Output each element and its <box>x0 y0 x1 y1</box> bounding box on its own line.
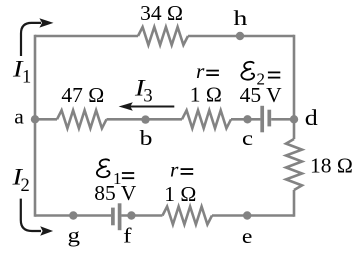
svg-text:g: g <box>68 223 81 247</box>
battery E2 long plate <box>260 106 264 133</box>
wire bottom side <box>35 214 294 217</box>
wire top side <box>35 35 294 38</box>
svg-text:34 Ω: 34 Ω <box>140 1 183 25</box>
battery E1 short plate <box>111 208 115 226</box>
current arrow I2 <box>21 199 41 231</box>
label script E1 <box>97 159 110 177</box>
svg-text:f: f <box>123 224 132 248</box>
svg-text:a: a <box>14 104 24 128</box>
svg-text:r: r <box>196 59 205 83</box>
svg-text:r: r <box>170 158 179 182</box>
svg-text:2: 2 <box>21 176 30 196</box>
node c <box>243 115 251 123</box>
node d <box>290 115 298 123</box>
resistor r internal bottom <box>163 207 213 225</box>
node g <box>69 211 77 219</box>
svg-text:1 Ω: 1 Ω <box>190 82 222 106</box>
svg-text:d: d <box>305 105 318 130</box>
node e <box>243 211 251 219</box>
svg-text:45 V: 45 V <box>240 83 282 107</box>
resistor R 47ohm <box>57 110 107 128</box>
svg-text:1 Ω: 1 Ω <box>164 182 196 206</box>
resistor R 34ohm <box>138 27 188 45</box>
svg-text:47 Ω: 47 Ω <box>61 83 104 107</box>
resistor R 18ohm <box>286 139 302 190</box>
svg-text:85 V: 85 V <box>94 181 136 205</box>
svg-text:e: e <box>242 224 253 248</box>
node h <box>236 32 244 40</box>
battery E1 long plate <box>118 203 122 230</box>
battery E2 short plate <box>267 110 271 127</box>
svg-text:c: c <box>242 126 253 150</box>
svg-text:3: 3 <box>143 87 152 107</box>
wire middle a-d <box>35 118 294 121</box>
resistor r internal middle <box>182 110 231 128</box>
svg-text:1: 1 <box>22 68 31 88</box>
current arrow I3 <box>128 106 174 108</box>
node f <box>127 211 135 219</box>
svg-text:18 Ω: 18 Ω <box>310 154 353 178</box>
current arrow I1 <box>21 23 41 56</box>
svg-text:h: h <box>233 6 247 30</box>
node b <box>141 115 149 123</box>
wire right side <box>293 35 296 217</box>
node a <box>31 115 39 123</box>
label script E2 <box>241 62 254 80</box>
wire left side <box>34 35 37 217</box>
svg-text:b: b <box>140 126 153 150</box>
